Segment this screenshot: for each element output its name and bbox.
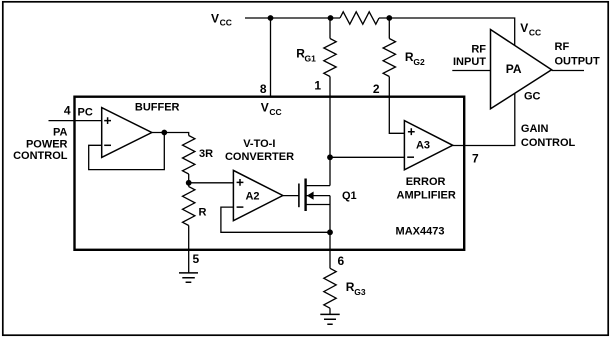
label BUFFER xyxy=(135,101,180,113)
pin number 8 xyxy=(260,82,267,96)
pin number 4 xyxy=(64,103,71,117)
wire: pin 1 line from RG1 down to Q1 drain node xyxy=(329,77,331,158)
label RF INPUT xyxy=(453,43,486,68)
svg-text:4: 4 xyxy=(64,103,71,117)
wire: drain node to A3 - input xyxy=(330,156,404,158)
label 3R xyxy=(199,148,213,160)
svg-text:1: 1 xyxy=(314,78,321,92)
svg-text:V-TO-I: V-TO-I xyxy=(243,138,275,150)
svg-text:GC: GC xyxy=(524,91,541,103)
wire: buffer output to 3R xyxy=(152,133,189,136)
wire: A2 output to Q1 gate xyxy=(283,195,299,197)
svg-text:G2: G2 xyxy=(413,57,425,67)
svg-text:PA: PA xyxy=(53,127,68,139)
wire: RG2 top stub xyxy=(388,18,390,39)
wire: A2 feedback from source node xyxy=(221,207,330,232)
wire: RF output xyxy=(552,70,584,72)
label RG2 xyxy=(405,50,425,67)
node VCC (top-left label) xyxy=(211,11,232,27)
label Q1 xyxy=(342,190,357,202)
pin number 1 xyxy=(314,78,321,92)
svg-text:3R: 3R xyxy=(199,148,213,160)
wire: VCC top rail left segment xyxy=(245,17,340,19)
label ERROR AMPLIFIER xyxy=(397,176,456,201)
wire: Q1 source down to pin 6 xyxy=(329,196,331,269)
node: source/feedback junction dot xyxy=(327,229,333,235)
node: junction dot at pin-8 drop xyxy=(268,15,274,21)
label V-TO-I CONVERTER xyxy=(225,138,294,163)
wire: RF input xyxy=(452,70,490,72)
svg-text:CONVERTER: CONVERTER xyxy=(225,151,294,163)
svg-text:G1: G1 xyxy=(305,53,317,63)
resistor R (top, unlabeled between RG1/RG2 nodes) xyxy=(340,12,379,24)
svg-text:V: V xyxy=(520,21,528,35)
wire: 3R/R node to A2 + input xyxy=(189,182,234,184)
node: junction dot at RG1 top xyxy=(328,15,334,21)
svg-text:5: 5 xyxy=(193,252,200,266)
svg-text:CONTROL: CONTROL xyxy=(13,150,68,162)
svg-text:RF: RF xyxy=(555,41,570,53)
op-amp A2 xyxy=(233,170,282,220)
label PA POWER CONTROL xyxy=(13,127,68,163)
svg-text:PC: PC xyxy=(78,106,93,118)
svg-text:V: V xyxy=(261,101,269,115)
op-amp A3 xyxy=(404,121,452,170)
wire: RG1 top stub xyxy=(329,18,331,39)
svg-text:GAIN: GAIN xyxy=(521,123,549,135)
node: 3R/R junction dot xyxy=(186,180,192,186)
label RF OUTPUT xyxy=(555,41,601,67)
svg-text:AMPLIFIER: AMPLIFIER xyxy=(397,190,456,202)
svg-text:INPUT: INPUT xyxy=(453,56,486,68)
label GC xyxy=(524,91,541,103)
pin number 2 xyxy=(373,82,380,96)
wire: R to pin 5 and ground xyxy=(188,226,190,273)
svg-text:MAX4473: MAX4473 xyxy=(396,226,445,238)
node: junction dot at RG2 top xyxy=(386,15,392,21)
pin number 5 xyxy=(193,252,200,266)
label GAIN CONTROL xyxy=(521,123,576,149)
svg-text:R: R xyxy=(199,206,207,218)
svg-text:BUFFER: BUFFER xyxy=(135,101,180,113)
svg-text:8: 8 xyxy=(260,82,267,96)
svg-text:2: 2 xyxy=(373,82,380,96)
svg-text:A3: A3 xyxy=(416,139,430,151)
resistor RG1 xyxy=(324,39,336,77)
op-amp buffer xyxy=(102,108,152,158)
svg-text:RF: RF xyxy=(471,43,486,55)
svg-text:CC: CC xyxy=(220,18,232,28)
wire: pin 2 line from RG2 to A3 + input xyxy=(389,77,404,134)
svg-text:V: V xyxy=(211,11,219,25)
svg-text:OUTPUT: OUTPUT xyxy=(555,55,601,67)
wire: buffer feedback loop xyxy=(89,133,165,170)
wire: VCC top rail right segment, drops to PA VCC pin xyxy=(379,18,515,45)
amplifier PA xyxy=(491,30,552,109)
resistor 3R xyxy=(183,136,195,175)
wire: 3R to R junction xyxy=(188,174,190,187)
svg-text:G3: G3 xyxy=(354,287,366,297)
ground (RG3) xyxy=(320,314,339,324)
IC box MAX4473 xyxy=(75,97,465,250)
label PC xyxy=(78,106,93,118)
transistor Q1 (n-MOSFET) xyxy=(299,179,330,212)
svg-text:POWER: POWER xyxy=(26,138,68,150)
node: drain node dot (pin1 line joins A3 - wire) xyxy=(327,154,333,160)
svg-text:7: 7 xyxy=(472,151,479,165)
label RG3 xyxy=(346,280,366,297)
svg-text:CC: CC xyxy=(269,107,281,117)
wire: RG3 to ground xyxy=(329,308,331,314)
wire: PC input to buffer + xyxy=(49,120,102,122)
svg-text:CC: CC xyxy=(529,28,541,38)
resistor R xyxy=(183,187,195,226)
svg-text:6: 6 xyxy=(338,254,345,268)
label R xyxy=(199,206,207,218)
svg-text:Q1: Q1 xyxy=(342,190,357,202)
wire: A3 output pin 7 to PA gain control xyxy=(453,93,515,145)
resistor RG2 xyxy=(383,39,395,77)
label VCC (PA supply) xyxy=(520,21,541,37)
svg-text:A2: A2 xyxy=(245,191,259,203)
wire: Q1 drain up to drain node xyxy=(329,157,331,185)
resistor RG3 xyxy=(324,268,336,308)
svg-text:CONTROL: CONTROL xyxy=(521,137,576,149)
label VCC inside box at pin 8 xyxy=(261,101,282,117)
svg-text:ERROR: ERROR xyxy=(406,176,446,188)
label RG1 xyxy=(296,47,316,64)
ground (pin 5) xyxy=(179,273,198,282)
label MAX4473 xyxy=(396,226,445,238)
wire: pin 8 drop from VCC rail xyxy=(270,18,272,96)
node: buffer output junction dot xyxy=(161,130,167,136)
pin number 6 xyxy=(338,254,345,268)
pin number 7 xyxy=(472,151,479,165)
svg-text:PA: PA xyxy=(506,62,522,76)
